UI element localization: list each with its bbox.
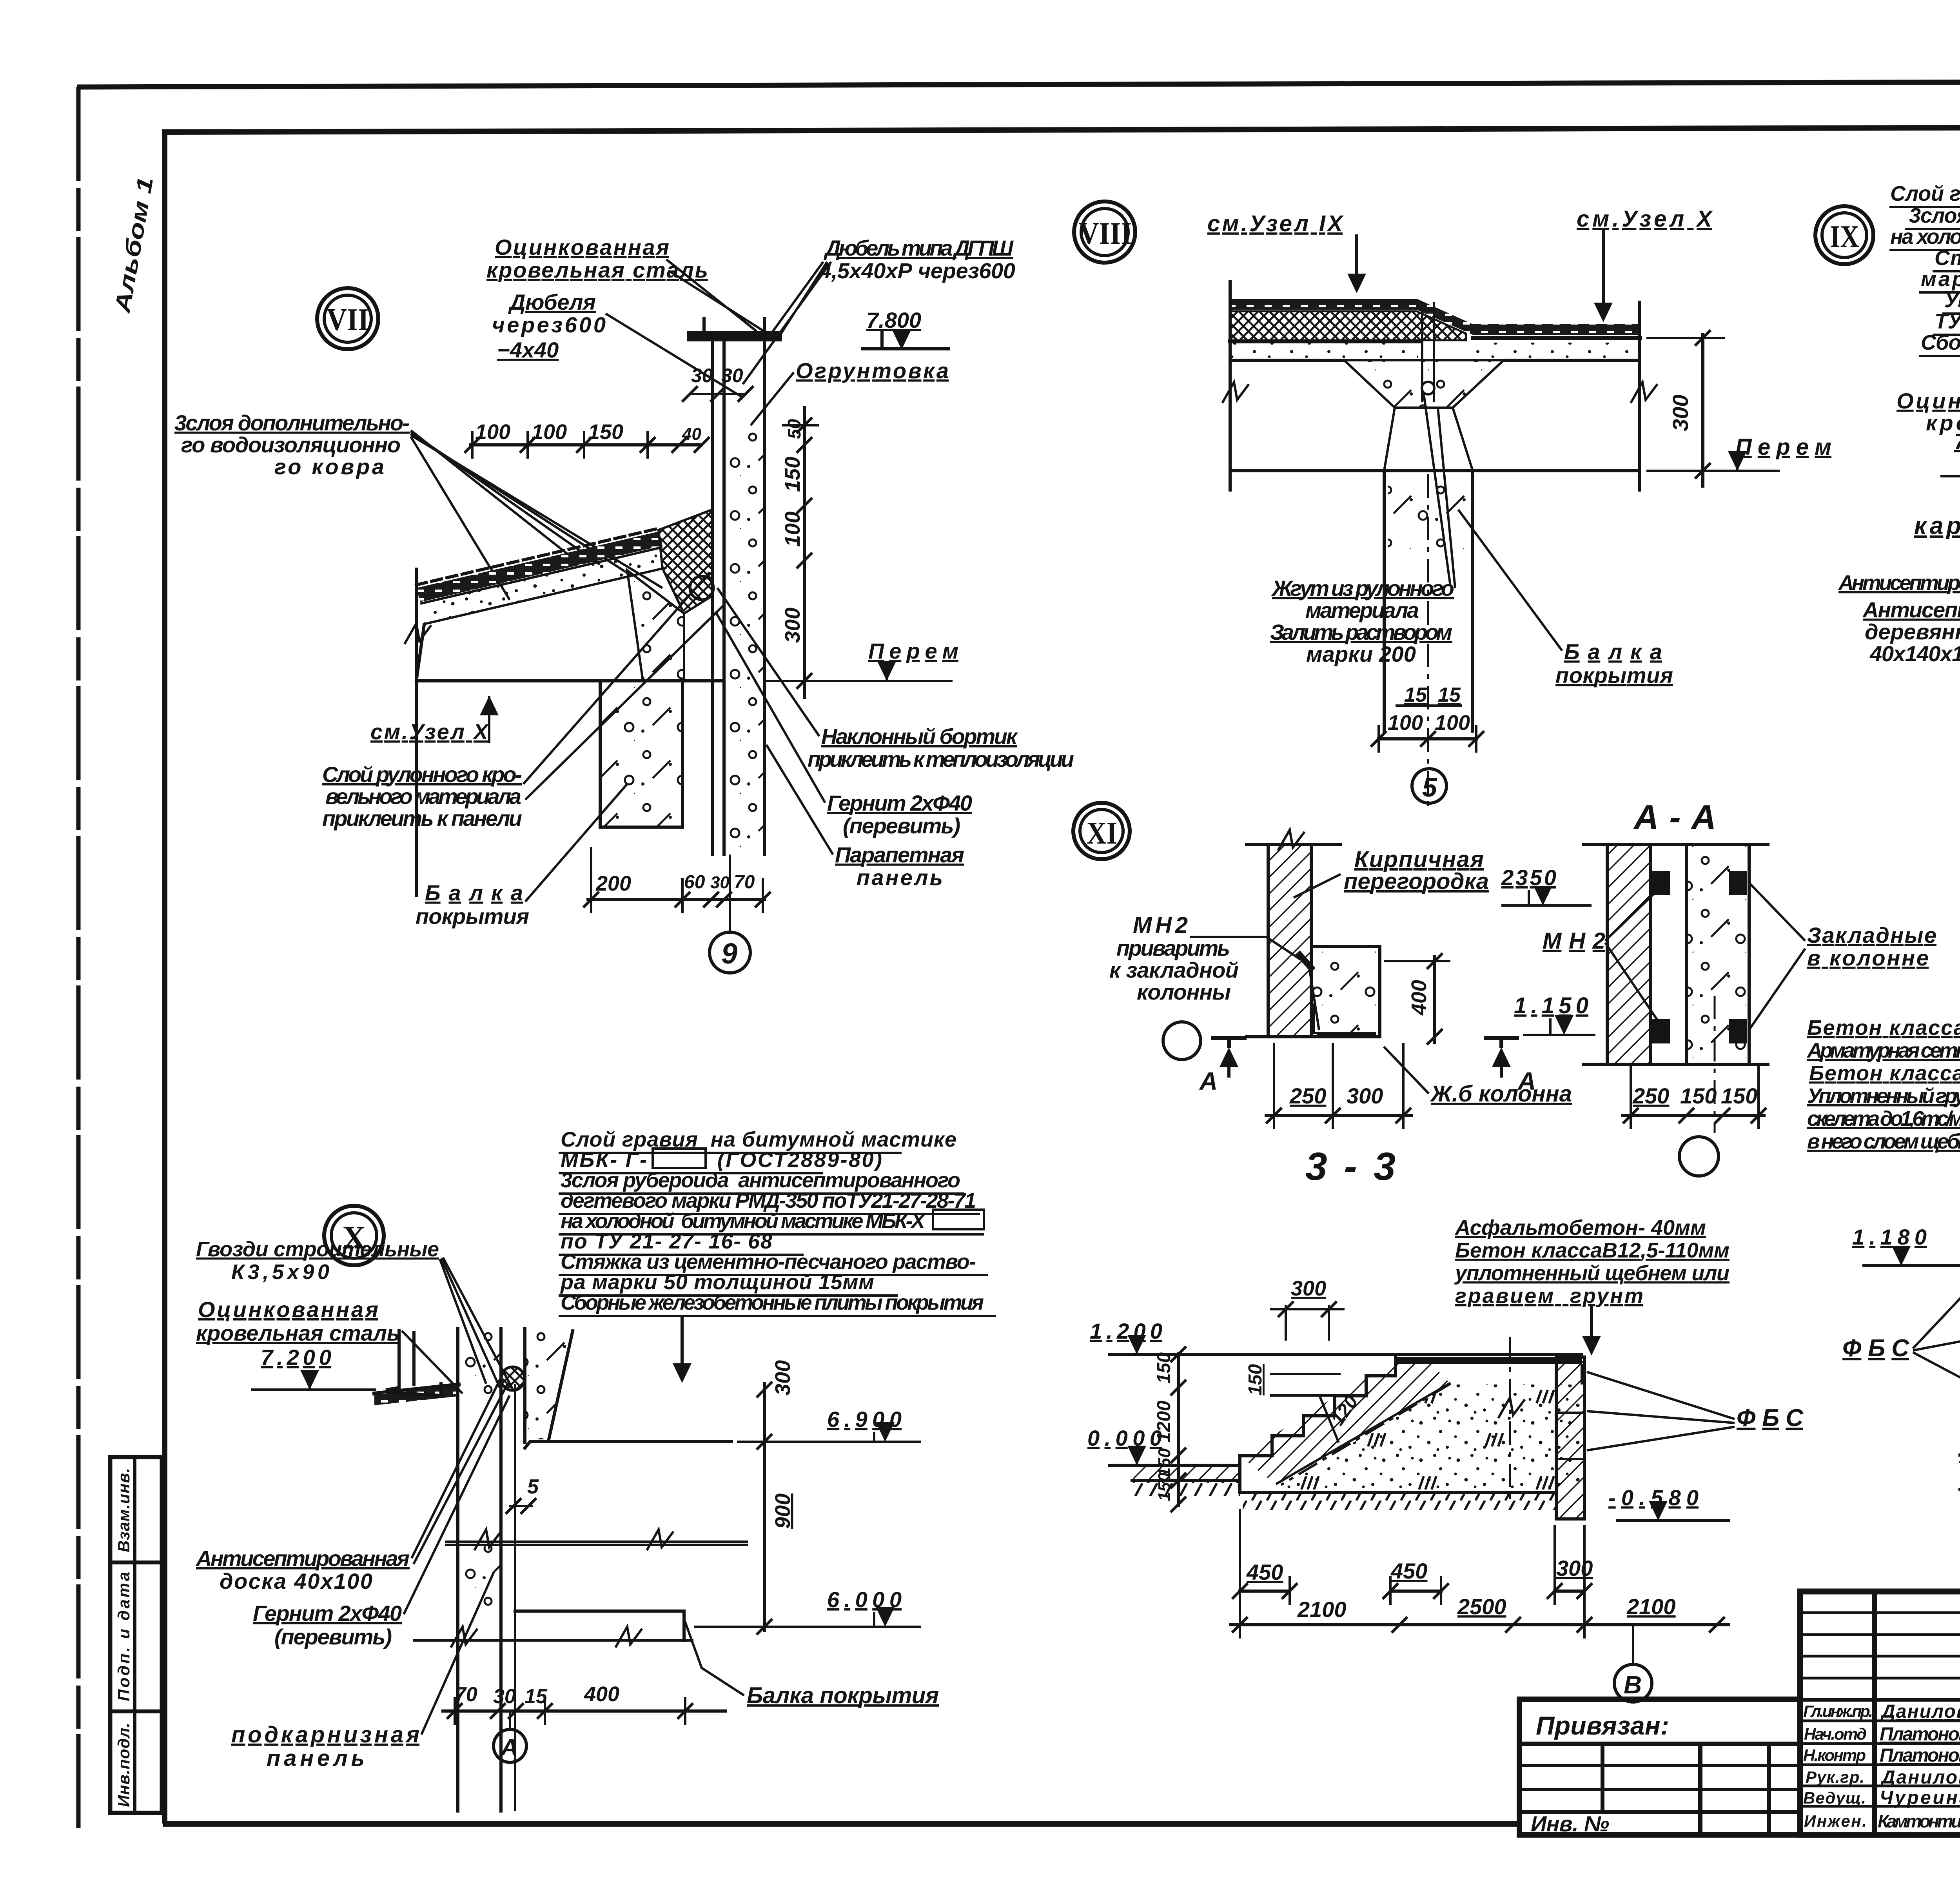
svg-text:9: 9 — [721, 937, 737, 970]
svg-text:скелета до1,6тс/м3 с втрамбова: скелета до1,6тс/м3 с втрамбованным — [1807, 1107, 1960, 1130]
svg-text:Ведущ.: Ведущ. — [1803, 1789, 1866, 1807]
svg-text:5: 5 — [527, 1475, 539, 1498]
svg-text:4,5х40хР через600: 4,5х40хР через600 — [819, 258, 1015, 283]
svg-text:3слоя дополнительно-: 3слоя дополнительно- — [174, 410, 410, 435]
beam under slab — [600, 681, 682, 827]
svg-text:100: 100 — [781, 512, 804, 547]
roof right section: carpet — [1473, 324, 1640, 335]
svg-text:60: 60 — [684, 872, 705, 893]
svg-text:через600: через600 — [492, 312, 606, 337]
base line — [1240, 1491, 1556, 1494]
top dimension 100 100 150 40 — [465, 420, 710, 459]
arrow from spec block to roof — [681, 1317, 684, 1370]
svg-text:Арматурная сетка С-4см. черт.: Арматурная сетка С-4см. черт. АС-6 — [1806, 1039, 1960, 1062]
side break edges — [1229, 281, 1232, 490]
svg-text:(перевить): (перевить) — [843, 813, 960, 838]
svg-text:к закладной: к закладной — [1109, 958, 1239, 982]
main outline — [1800, 1591, 1960, 1835]
svg-text:Слой рулонного кро-: Слой рулонного кро- — [322, 762, 522, 787]
svg-text:−4х40: −4х40 — [497, 338, 559, 362]
svg-text:1.200: 1.200 — [1090, 1319, 1162, 1343]
svg-text:Гл.инж.пр.: Гл.инж.пр. — [1803, 1702, 1873, 1720]
svg-text:5: 5 — [1422, 773, 1437, 802]
svg-text:Жгут из рулонного: Жгут из рулонного — [1271, 576, 1454, 601]
spec text block node X — [559, 1128, 996, 1316]
svg-text:Антисептированная: Антисептированная — [195, 1546, 410, 1571]
svg-text:Залить раствором: Залить раствором — [1270, 620, 1452, 644]
column plan — [1311, 947, 1380, 1037]
svg-text:Перем: Перем — [868, 639, 958, 663]
svg-text:150: 150 — [1155, 1472, 1174, 1501]
callout circle B — [1614, 1625, 1652, 1702]
svg-text:Взам.инв.: Взам.инв. — [114, 1468, 133, 1552]
svg-text:дегтевого марки РМД-350 поТУ21: дегтевого марки РМД-350 поТУ21-27-28-71 — [561, 1189, 976, 1212]
roof sloped layers — [416, 528, 659, 585]
svg-text:Закладные: Закладные — [1807, 923, 1936, 947]
svg-text:марки 50 толщиной-15мм: марки 50 толщиной-15мм — [1921, 267, 1960, 291]
svg-text:Ж.б колонна: Ж.б колонна — [1430, 1081, 1572, 1107]
insulation crosshatch — [1230, 311, 1466, 340]
svg-text:кровельная сталь: кровельная сталь — [196, 1321, 400, 1345]
svg-text:Гернит 2хФ40: Гернит 2хФ40 — [253, 1601, 402, 1626]
crosshatch wedge (наклонный бортик) — [659, 510, 712, 613]
hatched band under steps — [1240, 1359, 1450, 1485]
section marks A-A — [1163, 1022, 1201, 1060]
roof left section: carpet — [1230, 299, 1473, 335]
svg-text:Антисептированная доска 40х100: Антисептированная доска 40х100 — [1838, 571, 1960, 595]
svg-text:Балка покрытия: Балка покрытия — [747, 1683, 939, 1708]
dotted mass — [1281, 1384, 1582, 1490]
svg-text:150: 150 — [1154, 1352, 1174, 1384]
left rotated dim chain — [1177, 1354, 1180, 1505]
svg-text:400: 400 — [1407, 980, 1431, 1016]
svg-text:300: 300 — [1347, 1083, 1383, 1108]
svg-text:2500: 2500 — [1457, 1594, 1506, 1619]
leaders to roof layers — [411, 430, 662, 600]
svg-text:Наклонный бортик: Наклонный бортик — [821, 724, 1018, 749]
svg-text:100: 100 — [475, 420, 510, 444]
svg-text:300: 300 — [1291, 1277, 1326, 1300]
svg-text:на холодной битумной мастике М: на холодной битумной мастике МБК-Х — [1890, 225, 1960, 249]
svg-text:Нач.отд: Нач.отд — [1804, 1725, 1867, 1743]
leader — [666, 259, 768, 334]
outer border top — [77, 80, 1960, 87]
svg-text:3 - 3: 3 - 3 — [1305, 1145, 1396, 1189]
dotted joint zone right of slab — [627, 570, 684, 681]
svg-text:см.Узел X: см.Узел X — [1577, 206, 1713, 232]
svg-text:250: 250 — [1632, 1083, 1669, 1108]
svg-text:приклеить к теплоизоляции: приклеить к теплоизоляции — [808, 747, 1074, 771]
svg-text:100: 100 — [1435, 711, 1470, 735]
right vertical dim chain — [763, 1384, 766, 1631]
svg-text:IX: IX — [1830, 220, 1859, 254]
svg-text:30: 30 — [691, 365, 713, 386]
svg-text:Огрунтовка: Огрунтовка — [796, 358, 949, 383]
svg-text:в колонне: в колонне — [1807, 945, 1929, 970]
parapet cap plate — [687, 331, 782, 341]
anchor dowel — [1298, 953, 1313, 970]
3-3 plan: brick partition — [1268, 845, 1311, 1037]
svg-text:Данилов: Данилов — [1880, 1701, 1960, 1722]
tall grid rows upper empty — [1800, 1611, 1960, 1614]
svg-text:Стяжка из цементно-песчаного р: Стяжка из цементно-песчаного раствора — [1935, 246, 1960, 270]
leaders to joint — [1424, 394, 1455, 588]
svg-text:Камтонтин.: Камтонтин. — [1878, 1811, 1960, 1831]
left attachment box — [1519, 1699, 1800, 1836]
svg-text:250: 250 — [1289, 1083, 1326, 1108]
svg-text:3слоя рубероида антисептирован: 3слоя рубероида антисептированного дегте… — [1909, 204, 1960, 227]
svg-text:доска 40х100: доска 40х100 — [220, 1569, 372, 1593]
slab joint dotted trapezoid — [1344, 360, 1504, 408]
svg-text:Дюбель типа ДГПШ: Дюбель типа ДГПШ — [824, 236, 1014, 260]
svg-text:7.200: 7.200 — [1954, 429, 1960, 454]
svg-text:см.Узел X: см.Узел X — [370, 719, 490, 744]
svg-text:Рук.гр.: Рук.гр. — [1806, 1768, 1864, 1786]
roof assembly — [374, 1384, 459, 1394]
svg-text:А - А: А - А — [1633, 798, 1716, 836]
svg-text:Платонов: Платонов — [1880, 1724, 1960, 1745]
svg-text:колонны: колонны — [1137, 980, 1231, 1004]
joint seam — [1422, 302, 1434, 402]
svg-text:150: 150 — [781, 457, 804, 492]
svg-text:900: 900 — [771, 1493, 795, 1529]
svg-text:МН2: МН2 — [1133, 913, 1188, 938]
node X circle — [324, 1206, 384, 1265]
svg-text:покрытия: покрытия — [416, 904, 529, 929]
svg-text:А: А — [500, 1734, 518, 1760]
svg-text:50: 50 — [784, 419, 804, 439]
svg-text:Асфальтобетон- 40мм: Асфальтобетон- 40мм — [1454, 1216, 1706, 1239]
svg-text:приклеить к панели: приклеить к панели — [322, 806, 522, 831]
tall grid verticals — [1872, 1591, 1877, 1835]
svg-text:100: 100 — [1388, 711, 1423, 735]
svg-text:Утеплитель плитный У=700кгс/см: Утеплитель плитный У=700кгс/см3 по — [1944, 289, 1960, 312]
svg-text:Оцинкованная: Оцинкованная — [1896, 388, 1960, 413]
svg-text:15: 15 — [1404, 684, 1427, 706]
signature rows — [1800, 1720, 1960, 1722]
leader — [743, 262, 831, 384]
svg-text:Н.контр: Н.контр — [1803, 1746, 1866, 1764]
svg-text:300: 300 — [1556, 1556, 1593, 1580]
svg-text:Антисептированная: Антисептированная — [1862, 597, 1960, 622]
svg-text:Сборные железобетонные плиты: Сборные железобетонные плиты покрытия — [1921, 331, 1960, 354]
svg-text:Парапетная: Парапетная — [835, 842, 964, 867]
svg-text:по ТУ 21- 27- 16- 68: по ТУ 21- 27- 16- 68 — [561, 1230, 772, 1253]
node VII circle — [317, 288, 378, 349]
svg-text:ра марки 50 толщиной 15мм: ра марки 50 толщиной 15мм — [560, 1270, 874, 1294]
svg-text:покрытия: покрытия — [1555, 663, 1673, 688]
svg-text:150: 150 — [588, 420, 623, 444]
outer border left (dashed scan line) — [76, 87, 81, 1834]
steps outline — [1240, 1357, 1396, 1456]
axis line — [1509, 1337, 1511, 1502]
svg-text:в него слоем щебня или гравия: в него слоем щебня или гравия 40-60мм — [1807, 1130, 1960, 1153]
svg-text:150: 150 — [1245, 1364, 1266, 1395]
svg-text:вельного материала: вельного материала — [325, 784, 521, 809]
callout circle 5 — [1412, 769, 1446, 803]
empty circle callout — [1679, 1137, 1719, 1176]
svg-text:МБК- Г-: МБК- Г- — [561, 1148, 647, 1172]
concrete band — [1686, 845, 1749, 1064]
gernit rope circle — [690, 576, 713, 600]
svg-text:В: В — [1624, 1671, 1642, 1699]
svg-text:Подп. и дата: Подп. и дата — [114, 1572, 133, 1701]
svg-text:Бетон класса В12,5- 110 мм: Бетон класса В12,5- 110 мм — [1809, 1062, 1960, 1085]
svg-text:Инв.подл.: Инв.подл. — [114, 1723, 133, 1807]
slab body — [416, 625, 723, 681]
svg-text:15: 15 — [1438, 684, 1461, 706]
svg-text:Оцинкованная: Оцинкованная — [495, 235, 669, 259]
flashing left — [387, 1331, 441, 1395]
svg-text:200: 200 — [595, 872, 631, 895]
svg-text:Дюбеля: Дюбеля — [508, 290, 596, 314]
brick wall — [1607, 845, 1650, 1064]
svg-text:Инжен.: Инжен. — [1804, 1812, 1867, 1830]
spec text block — [1889, 181, 1960, 356]
svg-text:МН2: МН2 — [1543, 928, 1605, 954]
svg-text:150: 150 — [1680, 1083, 1717, 1108]
svg-text:VIII: VIII — [1079, 216, 1132, 251]
svg-text:марки 200: марки 200 — [1306, 642, 1416, 666]
right vertical dim chain — [781, 408, 819, 698]
callout circle A — [494, 1711, 526, 1762]
svg-text:7.800: 7.800 — [866, 308, 921, 332]
lower ceiling and beam — [515, 1609, 684, 1613]
svg-text:40: 40 — [682, 425, 701, 444]
spec text block — [1806, 1016, 1960, 1153]
texts: Асфальтобетон etc — [1454, 1216, 1730, 1308]
svg-text:400: 400 — [584, 1682, 619, 1706]
svg-text:перегородка: перегородка — [1344, 869, 1489, 894]
svg-text:70: 70 — [455, 1683, 477, 1706]
svg-text:Привязан:: Привязан: — [1536, 1711, 1669, 1740]
svg-text:А: А — [1199, 1067, 1218, 1095]
screed dotted band left — [1230, 343, 1418, 360]
FBS retaining wall — [1556, 1357, 1584, 1519]
svg-text:100: 100 — [532, 420, 567, 444]
svg-text:Бетон классаВ12,5-110мм: Бетон классаВ12,5-110мм — [1455, 1239, 1730, 1262]
node VIII circle — [1074, 201, 1135, 263]
svg-text:Уплотненный грунт с плотностью: Уплотненный грунт с плотностью — [1807, 1084, 1960, 1108]
svg-text:40х140х150 шаг1500: 40х140х150 шаг1500 — [1869, 641, 1960, 666]
bottom dim 200 60 30 70 — [583, 847, 771, 913]
svg-text:деревянная пробка: деревянная пробка — [1865, 619, 1960, 644]
wall panel — [456, 1329, 459, 1811]
svg-text:2100: 2100 — [1297, 1597, 1347, 1622]
svg-text:1.180: 1.180 — [1852, 1225, 1927, 1249]
svg-text:Бетон класса В22,5 - 40мм: Бетон класса В22,5 - 40мм — [1807, 1016, 1960, 1040]
svg-text:Платонов: Платонов — [1880, 1745, 1960, 1766]
svg-text:Оцинкованная: Оцинкованная — [198, 1297, 378, 1322]
svg-text:150: 150 — [1721, 1083, 1757, 1108]
svg-text:см.Узел IX: см.Узел IX — [1207, 211, 1344, 236]
arrow down from text — [1590, 1305, 1593, 1345]
long dim line — [1231, 1623, 1729, 1626]
svg-text:XI: XI — [1087, 816, 1117, 851]
gernit — [501, 1367, 524, 1390]
embedded angle — [1314, 1003, 1376, 1035]
node XI circle — [1073, 803, 1130, 859]
ground hatch under base — [1243, 1493, 1556, 1510]
svg-text:70: 70 — [734, 872, 755, 893]
centerline — [1714, 996, 1716, 1133]
svg-text:ФБС: ФБС — [1842, 1335, 1909, 1362]
top platform slab — [1396, 1357, 1582, 1364]
svg-text:7.200: 7.200 — [261, 1345, 331, 1370]
break line — [445, 1542, 748, 1545]
leader — [751, 372, 794, 425]
svg-text:гравием грунт: гравием грунт — [1455, 1284, 1643, 1308]
svg-text:0.000: 0.000 — [1087, 1426, 1162, 1450]
svg-text:1200: 1200 — [1154, 1401, 1174, 1443]
svg-text:карниз: карниз — [1914, 512, 1960, 539]
svg-text:материала: материала — [1305, 598, 1419, 622]
concrete region right of wall with slope — [525, 1331, 573, 1439]
callout circle 9 — [710, 855, 750, 973]
parapet panel — [711, 341, 714, 855]
node IX circle — [1815, 206, 1873, 264]
svg-text:450: 450 — [1246, 1560, 1283, 1584]
svg-text:Перем: Перем — [1735, 434, 1831, 460]
leader — [606, 314, 742, 397]
panel strip — [1650, 845, 1686, 1064]
svg-text:VII: VII — [327, 303, 369, 337]
svg-text:300: 300 — [771, 1360, 795, 1395]
svg-text:Слой гравия на битумной мастик: Слой гравия на битумной мастике М5хГ- — [1890, 182, 1960, 205]
svg-text:Гвозди строительные: Гвозди строительные — [196, 1238, 439, 1261]
vertical dim 300 right — [1701, 335, 1704, 486]
svg-text:Гернит 2хФ40: Гернит 2хФ40 — [827, 791, 972, 815]
svg-text:1.150: 1.150 — [1514, 993, 1588, 1018]
svg-text:Инв. №: Инв. № — [1531, 1811, 1609, 1836]
svg-text:2100: 2100 — [1626, 1594, 1676, 1619]
ceiling line 6.900 — [525, 1442, 731, 1448]
bottom line — [1247, 1035, 1380, 1038]
soffit line — [1230, 469, 1640, 472]
svg-text:ФБС: ФБС — [1737, 1404, 1804, 1432]
svg-text:приварить: приварить — [1116, 936, 1230, 960]
svg-text:Стяжка из цементно-песчаного р: Стяжка из цементно-песчаного раство- — [561, 1250, 976, 1274]
svg-text:Слой гравия на битумной масти: Слой гравия на битумной мастике — [561, 1128, 956, 1151]
svg-text:(перевить): (перевить) — [274, 1624, 392, 1649]
svg-text:300: 300 — [781, 608, 804, 643]
leaders — [523, 572, 723, 800]
svg-text:3слоя рубероида антисептирова: 3слоя рубероида антисептированного — [561, 1169, 960, 1192]
svg-text:го ковра: го ковра — [274, 454, 384, 479]
svg-text:на холодной битумной мастике: на холодной битумной мастике МБК-Х — [561, 1209, 926, 1233]
svg-text:уплотненный щебнем или: уплотненный щебнем или — [1454, 1261, 1730, 1285]
svg-text:300: 300 — [1668, 395, 1693, 431]
embedded plates — [1652, 871, 1670, 895]
svg-text:30: 30 — [710, 873, 730, 892]
svg-text:ТУ 400-1-63-72 h=: ТУ 400-1-63-72 h= — [1935, 310, 1960, 333]
svg-text:Сборные железобетонные плиты п: Сборные железобетонные плиты покрытия — [561, 1291, 984, 1314]
svg-text:450: 450 — [1390, 1559, 1427, 1583]
column below — [1384, 471, 1473, 731]
svg-text:го водоизоляционно: го водоизоляционно — [181, 432, 401, 457]
dim 400 — [1433, 956, 1436, 1043]
